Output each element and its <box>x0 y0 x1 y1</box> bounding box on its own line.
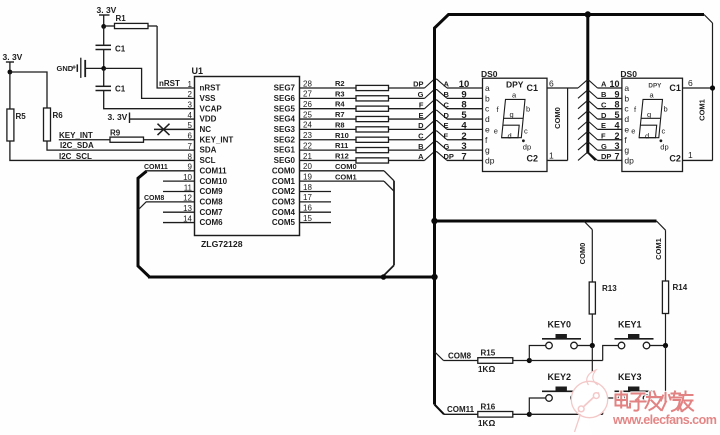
svg-text:A: A <box>418 152 424 161</box>
svg-text:C: C <box>418 131 424 140</box>
wire riser to KEY0 left <box>529 346 545 361</box>
node row1 junction <box>527 358 532 363</box>
svg-text:d: d <box>508 131 512 140</box>
svg-text:G: G <box>601 142 607 151</box>
wire <box>447 97 483 99</box>
svg-text:U1: U1 <box>192 66 204 76</box>
svg-text:DS0: DS0 <box>481 69 498 79</box>
svg-text:COM5: COM5 <box>272 218 296 227</box>
svg-text:20: 20 <box>303 162 312 171</box>
wire <box>447 128 483 130</box>
svg-text:F: F <box>601 131 606 140</box>
wire 3.3V rail down <box>103 26 105 44</box>
watermark halo <box>616 392 694 412</box>
wire thick left bus <box>138 171 150 277</box>
svg-text:R6: R6 <box>53 111 64 120</box>
svg-text:G: G <box>444 142 450 151</box>
svg-text:dp: dp <box>523 143 531 152</box>
wire <box>598 108 622 110</box>
svg-text:SDA: SDA <box>200 146 217 155</box>
svg-text:b: b <box>485 93 490 103</box>
svg-text:COM9: COM9 <box>200 187 224 196</box>
svg-text:26: 26 <box>303 100 312 109</box>
wire to R6 <box>10 72 47 108</box>
wire bus tap E to D <box>425 110 448 119</box>
svg-text:17: 17 <box>303 193 312 202</box>
svg-text:COM1: COM1 <box>698 99 707 121</box>
svg-text:R8: R8 <box>335 120 345 129</box>
svg-text:5: 5 <box>188 121 193 130</box>
wire <box>447 149 483 151</box>
wire bus2 tap B <box>578 91 598 98</box>
svg-text:COM11: COM11 <box>447 405 475 414</box>
svg-text:COM0: COM0 <box>553 107 562 129</box>
svg-text:19: 19 <box>303 172 312 181</box>
svg-text:a: a <box>485 83 490 93</box>
svg-text:dp: dp <box>624 155 634 165</box>
resistor R11 on SEG1 line <box>300 149 357 151</box>
wire stub pin 16 <box>300 211 332 213</box>
svg-text:3. 3V: 3. 3V <box>97 5 117 15</box>
svg-text:COM8: COM8 <box>448 351 472 360</box>
svg-text:18: 18 <box>303 183 312 192</box>
svg-text:D: D <box>418 121 424 130</box>
svg-text:DPY: DPY <box>648 82 662 89</box>
svg-text:VSS: VSS <box>200 94 217 103</box>
svg-text:R1: R1 <box>116 14 127 23</box>
svg-text:6: 6 <box>688 78 693 88</box>
svg-text:R11: R11 <box>335 141 348 150</box>
svg-text:a: a <box>624 83 629 93</box>
svg-text:KEY_INT: KEY_INT <box>59 131 93 140</box>
svg-text:F: F <box>419 100 424 109</box>
wire bus2 bottom chamfer <box>588 153 596 161</box>
wire bus tap B to G <box>425 141 448 150</box>
node bus junction y=277 <box>431 274 437 280</box>
svg-text:d: d <box>485 114 490 124</box>
svg-text:COM1: COM1 <box>335 172 357 181</box>
svg-text:R12: R12 <box>335 151 349 160</box>
svg-text:c: c <box>662 126 666 135</box>
svg-text:R13: R13 <box>602 284 617 293</box>
wire COM vertical to key matrix <box>393 181 395 265</box>
svg-text:E: E <box>418 111 423 120</box>
svg-text:C1: C1 <box>115 45 126 54</box>
wire <box>598 87 622 89</box>
wire <box>598 149 622 151</box>
wire COM0 vertical link C1-C2 <box>567 88 569 160</box>
wire <box>598 128 622 130</box>
capacitor C1 upper <box>96 44 112 46</box>
svg-text:G: G <box>418 90 424 99</box>
7-segment display DS0 #1 <box>483 78 548 171</box>
wire bus 2 vertical <box>586 15 589 153</box>
svg-text:g: g <box>510 110 514 119</box>
svg-text:3. 3V: 3. 3V <box>3 52 23 62</box>
watermark elecfans logo <box>571 370 609 435</box>
node KEY0/column junction <box>590 343 595 348</box>
svg-text:SEG7: SEG7 <box>274 84 296 93</box>
resistor R12 on SEG0 line <box>300 159 357 161</box>
svg-text:SEG1: SEG1 <box>274 146 296 155</box>
svg-text:KEY0: KEY0 <box>548 320 572 330</box>
resistor R4 on SEG5 line <box>300 108 357 110</box>
svg-text:DP: DP <box>444 152 454 161</box>
svg-text:R5: R5 <box>16 112 27 121</box>
svg-text:21: 21 <box>303 152 312 161</box>
resistor R14 <box>662 281 668 314</box>
wire stub pin 11 <box>163 191 195 193</box>
wire <box>447 87 483 89</box>
svg-text:R2: R2 <box>335 79 345 88</box>
svg-text:DP: DP <box>601 152 611 161</box>
wire <box>598 139 622 141</box>
wire bus2 tap F <box>578 132 598 139</box>
svg-text:C1: C1 <box>527 83 539 93</box>
wire row1 to KEY1 <box>529 360 602 362</box>
svg-text:c: c <box>624 104 629 114</box>
wire GND to rail <box>85 67 104 69</box>
svg-text:B: B <box>418 142 424 151</box>
wire bus tap F to C <box>425 100 448 109</box>
svg-text:www.elecfans.com: www.elecfans.com <box>612 413 717 427</box>
svg-text:R15: R15 <box>481 349 496 358</box>
svg-text:R4: R4 <box>335 100 345 109</box>
wire bus2 tap D <box>578 112 598 119</box>
svg-text:28: 28 <box>303 79 312 88</box>
wire bus2 tap A <box>578 81 598 88</box>
wire <box>447 139 483 141</box>
svg-text:b: b <box>526 105 530 114</box>
wire stub pin 13 <box>163 211 195 213</box>
wire stub pin 14 <box>163 222 195 224</box>
7-seg digit glyph DS0#1 <box>502 99 525 142</box>
svg-text:23: 23 <box>303 131 312 140</box>
svg-text:1K: 1K <box>478 419 488 428</box>
svg-text:1: 1 <box>549 150 554 160</box>
node C1 junction DS0#2 <box>710 85 715 90</box>
wire VDD <box>130 118 195 120</box>
svg-text:NC: NC <box>200 125 212 134</box>
wire VSS net <box>104 68 195 98</box>
wire thick horizontal rail y=277 <box>148 276 436 279</box>
wire <box>598 118 622 120</box>
wire column to KEY2 right <box>577 391 592 398</box>
node row2 junction <box>527 412 532 417</box>
wire VCAP net <box>104 91 195 109</box>
svg-text:COM0: COM0 <box>272 166 296 175</box>
svg-text:COM8: COM8 <box>200 197 224 206</box>
svg-text:ZLG72128: ZLG72128 <box>201 239 243 249</box>
no-connect X on NC pin 5 <box>154 128 195 130</box>
svg-text:VDD: VDD <box>200 115 217 124</box>
svg-text:15: 15 <box>303 214 312 223</box>
wire bus tap G to B <box>425 90 448 99</box>
svg-text:c: c <box>524 126 528 135</box>
svg-text:4: 4 <box>188 111 193 120</box>
wire stub pin 15 <box>300 222 332 224</box>
svg-text:SEG2: SEG2 <box>274 135 296 144</box>
svg-text:nRST: nRST <box>159 79 180 88</box>
wire <box>447 118 483 120</box>
resistor R5 <box>9 72 11 109</box>
svg-text:1: 1 <box>188 80 193 89</box>
node 3.3V/R1 junction <box>101 24 106 29</box>
wire KEY1 right to COM1 column <box>650 345 666 347</box>
wire <box>598 97 622 99</box>
svg-text:3. 3V: 3. 3V <box>108 112 128 122</box>
svg-text:6: 6 <box>549 78 554 88</box>
svg-text:R3: R3 <box>335 89 345 98</box>
svg-text:COM7: COM7 <box>200 208 224 217</box>
resistor R8 on SEG3 line <box>300 128 357 130</box>
resistor R6 <box>44 108 51 141</box>
svg-text:Ω: Ω <box>489 418 496 428</box>
svg-text:I2C_SCL: I2C_SCL <box>59 152 92 161</box>
node GND junction <box>101 66 106 71</box>
7-segment display DS0 #2 <box>622 78 683 171</box>
svg-text:R14: R14 <box>673 283 688 292</box>
svg-text:COM6: COM6 <box>200 218 224 227</box>
svg-text:+: + <box>72 65 76 72</box>
wire bus2 tap E <box>578 122 598 129</box>
wire COM11 row tap from bus bottom <box>435 405 445 415</box>
svg-text:DS0: DS0 <box>620 69 637 79</box>
svg-text:C2: C2 <box>527 153 539 163</box>
svg-text:KEY3: KEY3 <box>618 372 642 382</box>
node 3.3V left junction <box>7 70 12 75</box>
wire bus2 tap C <box>578 101 598 108</box>
svg-text:16: 16 <box>303 204 312 213</box>
svg-text:SEG4: SEG4 <box>274 115 296 124</box>
svg-text:dp: dp <box>485 155 495 165</box>
svg-text:b: b <box>664 105 668 114</box>
svg-text:SCL: SCL <box>200 156 216 165</box>
svg-text:24: 24 <box>303 121 312 130</box>
svg-text:g: g <box>485 145 490 155</box>
svg-text:R7: R7 <box>335 110 345 119</box>
svg-text:SEG0: SEG0 <box>274 156 296 165</box>
svg-text:2: 2 <box>188 90 193 99</box>
svg-text:COM2: COM2 <box>272 187 296 196</box>
node KEY1/column junction <box>663 343 668 348</box>
wire stub pin 17 <box>300 201 332 203</box>
svg-text:SEG3: SEG3 <box>274 125 296 134</box>
resistor R7 on SEG4 line <box>300 118 357 120</box>
svg-text:nRST: nRST <box>200 84 221 93</box>
node bus junction y=221 <box>431 218 437 224</box>
wire riser to KEY2 left <box>529 398 545 414</box>
wire <box>447 108 483 110</box>
svg-text:COM8: COM8 <box>144 195 164 202</box>
wire thick key rail y=221 <box>435 220 657 223</box>
svg-text:27: 27 <box>303 90 312 99</box>
svg-text:SEG6: SEG6 <box>274 94 296 103</box>
svg-text:1K: 1K <box>478 365 488 374</box>
svg-text:R10: R10 <box>335 131 349 140</box>
svg-text:d: d <box>624 114 629 124</box>
svg-text:25: 25 <box>303 110 312 119</box>
wire row2 to KEY3 <box>529 413 602 415</box>
node top rail junction for DS0#2 bus <box>585 11 591 17</box>
svg-text:6: 6 <box>188 132 193 141</box>
wire COM1 column tap <box>657 221 666 230</box>
svg-text:Ω: Ω <box>489 364 496 374</box>
wire bus tap A to DP <box>425 152 448 161</box>
svg-text:COM11: COM11 <box>144 164 168 171</box>
wire right vertical COM1 <box>704 15 713 24</box>
svg-text:SEG5: SEG5 <box>274 104 296 113</box>
resistor R3 on SEG6 line <box>300 97 357 99</box>
svg-text:DP: DP <box>413 80 423 89</box>
svg-text:e: e <box>485 124 490 134</box>
wire COM8 row tap <box>435 352 444 361</box>
svg-text:8: 8 <box>188 152 193 161</box>
svg-text:dp: dp <box>660 143 668 152</box>
svg-text:COM3: COM3 <box>272 197 296 206</box>
op-amp U1 ZLG72128 chip body <box>195 77 300 236</box>
svg-text:KEY2: KEY2 <box>548 372 572 382</box>
svg-text:COM4: COM4 <box>272 208 296 217</box>
wire bus tap D to E <box>425 121 448 130</box>
wire <box>447 159 483 161</box>
svg-text:g: g <box>647 110 651 119</box>
svg-text:DPY: DPY <box>506 79 524 89</box>
svg-text:COM1: COM1 <box>654 238 663 260</box>
wire bus tap C to F <box>425 131 448 140</box>
resistor R13 <box>589 282 595 314</box>
wire <box>598 159 622 161</box>
svg-text:COM11: COM11 <box>200 166 228 175</box>
svg-text:b: b <box>624 93 629 103</box>
wire stub pin 10 <box>163 180 195 182</box>
wire KEY0 right to COM0 column <box>577 345 592 347</box>
svg-text:d: d <box>645 131 649 140</box>
capacitor C1 lower <box>96 85 112 87</box>
svg-text:e: e <box>624 124 629 134</box>
svg-text:COM0: COM0 <box>335 162 357 171</box>
wire nRST net <box>157 26 194 88</box>
svg-text:F: F <box>444 131 449 140</box>
svg-text:3: 3 <box>188 101 193 110</box>
svg-text:g: g <box>624 145 629 155</box>
wire stub pin 18 <box>300 191 332 193</box>
svg-text:22: 22 <box>303 141 312 150</box>
svg-text:KEY_INT: KEY_INT <box>200 135 234 144</box>
svg-text:I2C_SDA: I2C_SDA <box>60 141 94 150</box>
7-seg digit glyph DS0#2 <box>639 99 662 142</box>
svg-text:R16: R16 <box>481 402 496 411</box>
wire column to KEY3 right <box>650 397 666 399</box>
node junction on thick rail <box>381 274 387 280</box>
svg-text:R9: R9 <box>110 128 121 137</box>
resistor R10 on SEG2 line <box>300 139 357 141</box>
svg-text:C2: C2 <box>669 153 681 163</box>
wire bus2 tap G <box>578 143 598 150</box>
svg-text:COM10: COM10 <box>200 177 228 186</box>
svg-text:C1: C1 <box>115 85 126 94</box>
svg-text:VCAP: VCAP <box>200 104 223 113</box>
svg-text:e: e <box>631 126 635 135</box>
svg-text:7: 7 <box>188 142 193 151</box>
svg-text:COM1: COM1 <box>272 177 296 186</box>
wire COM0 column tap <box>584 221 593 230</box>
svg-text:COM0: COM0 <box>578 243 587 265</box>
svg-text:C1: C1 <box>669 83 681 93</box>
wire bus2 tap DP <box>578 153 598 160</box>
resistor R2 on SEG7 line <box>300 87 357 89</box>
wire main segment bus <box>435 15 705 405</box>
svg-text:1: 1 <box>688 150 693 160</box>
wire bus tap DP to A <box>425 79 448 88</box>
svg-text:e: e <box>494 126 498 135</box>
svg-text:KEY1: KEY1 <box>618 320 642 330</box>
